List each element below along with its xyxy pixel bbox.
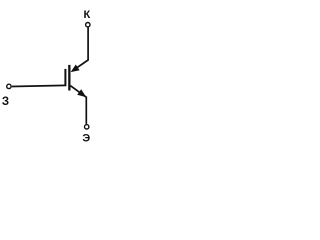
collector arrowhead [71, 65, 80, 73]
body bar [68, 65, 70, 91]
emitter wire [70, 86, 86, 124]
svg-text:З: З [2, 96, 9, 108]
emitter arrowhead [77, 89, 86, 97]
emitter terminal circle [85, 125, 89, 129]
collector terminal circle [86, 23, 90, 27]
svg-text:Э: Э [82, 133, 90, 145]
svg-text:К: К [84, 9, 91, 21]
gate bar [64, 69, 66, 86]
gate wire [12, 85, 66, 86]
gate terminal circle [7, 84, 11, 88]
collector wire [73, 27, 88, 70]
